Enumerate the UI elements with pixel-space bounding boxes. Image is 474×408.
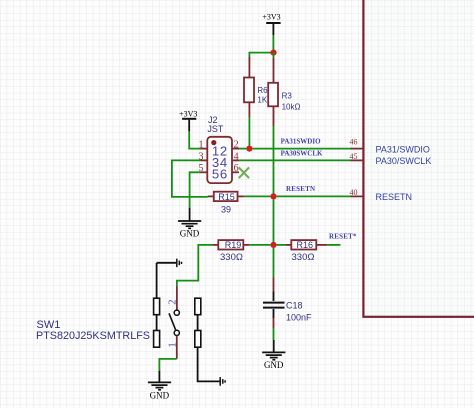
svg-text:4: 4	[234, 151, 239, 162]
contact circles and lever	[174, 310, 179, 315]
svg-text:R19: R19	[225, 240, 242, 250]
svg-text:PA30/SWCLK: PA30/SWCLK	[376, 156, 432, 166]
svg-text:6: 6	[220, 167, 227, 182]
connector J2	[199, 115, 240, 183]
wire J2 pin2 to node A	[239, 148, 246, 150]
resistor R3	[268, 53, 300, 126]
mech column A	[156, 263, 158, 298]
wire +3V3 to J2 pin1	[189, 131, 200, 148]
wire R6 to row A	[248, 117, 250, 149]
mech column B	[195, 298, 201, 315]
chassis ground (top)	[177, 259, 182, 268]
power +3V3 (top)	[262, 13, 280, 36]
svg-text:6: 6	[234, 163, 239, 174]
wire C18 to GND	[273, 328, 275, 340]
svg-text:100nF: 100nF	[286, 313, 312, 323]
resistor R6	[244, 57, 268, 117]
pin 2 stub	[176, 287, 178, 311]
svg-text:R6: R6	[257, 86, 268, 95]
svg-text:1: 1	[167, 342, 179, 348]
wire RESETN node down to row C node	[273, 200, 275, 245]
svg-text:2: 2	[167, 299, 179, 305]
wire R15 to RESETN node	[244, 195, 271, 197]
wire node C to R16	[277, 244, 286, 246]
svg-text:330Ω: 330Ω	[292, 252, 315, 263]
switch SW1	[36, 259, 225, 386]
power +3V3 (at J2)	[179, 109, 197, 131]
svg-text:40: 40	[350, 188, 358, 197]
wire node A to IC pin 46	[253, 148, 351, 150]
pin 45 stub	[351, 159, 364, 161]
wire J2 pin3 to R15 (left jog)	[172, 160, 208, 197]
svg-text:1: 1	[199, 140, 204, 151]
pin 40 stub	[351, 195, 364, 197]
svg-text:JST: JST	[207, 124, 224, 134]
svg-text:330Ω: 330Ω	[220, 252, 243, 263]
wire node C down to C18	[273, 248, 275, 278]
svg-text:R3: R3	[282, 92, 293, 101]
svg-text:5: 5	[212, 167, 219, 182]
chassis ground (bottom right)	[220, 377, 225, 386]
svg-text:RESET*: RESET*	[329, 232, 357, 240]
wire R19 to node C	[249, 244, 270, 246]
wire junction to R6 top	[249, 53, 273, 58]
svg-text:PA30SWCLK: PA30SWCLK	[281, 150, 323, 158]
svg-text:+3V3: +3V3	[262, 13, 280, 22]
svg-text:PTS820J25KSMTRLFS: PTS820J25KSMTRLFS	[36, 330, 150, 342]
capacitor C18	[263, 278, 312, 329]
resistor R19	[212, 240, 249, 263]
svg-text:39: 39	[221, 204, 231, 214]
node A junction (row A / R6)	[246, 146, 252, 152]
svg-text:1K: 1K	[257, 96, 267, 105]
svg-text:RESETN: RESETN	[376, 192, 413, 202]
svg-text:PA31SWDIO: PA31SWDIO	[281, 138, 321, 146]
ground GND (C18)	[262, 340, 285, 370]
wire J2 pin4 to IC pin 45	[239, 159, 351, 161]
node RESETN junction	[270, 193, 276, 199]
ground GND (SW1)	[148, 371, 171, 401]
svg-text:GND: GND	[264, 360, 284, 370]
svg-text:R16: R16	[297, 240, 314, 250]
svg-text:GND: GND	[180, 229, 200, 239]
pin 1 stub	[176, 336, 178, 359]
svg-text:R15: R15	[218, 192, 235, 202]
no-connect X on J2 pin 6	[239, 167, 249, 178]
wire R3 bottom to RESETN junction	[273, 126, 275, 196]
pin 46 stub	[351, 148, 364, 150]
IC U1 body (partial, off right edge)	[363, 0, 474, 317]
svg-text:2: 2	[234, 140, 239, 151]
svg-text:45: 45	[350, 152, 358, 161]
ground GND (J2)	[178, 208, 201, 239]
svg-text:GND: GND	[150, 391, 170, 401]
svg-text:46: 46	[350, 137, 358, 146]
svg-text:+3V3: +3V3	[179, 109, 197, 118]
wire R19 left to switch pin 2	[177, 245, 213, 287]
wire J2 pin5 to GND	[190, 172, 201, 207]
node row C junction	[270, 242, 276, 248]
wire +3V3 to junction	[272, 35, 274, 53]
svg-text:10kΩ: 10kΩ	[282, 103, 301, 112]
resistor R15	[208, 192, 244, 215]
node junction top	[270, 50, 276, 56]
wire R16 right stub (net RESET*)	[327, 244, 340, 246]
svg-text:PA31/SWDIO: PA31/SWDIO	[376, 144, 430, 154]
wire RESETN node to IC pin 40	[277, 195, 351, 197]
resistor R16	[285, 240, 327, 263]
wire switch pin1 to GND	[159, 359, 176, 371]
svg-text:RESETN: RESETN	[286, 185, 315, 193]
svg-text:C18: C18	[286, 301, 303, 311]
top wire to chassis	[157, 262, 176, 264]
